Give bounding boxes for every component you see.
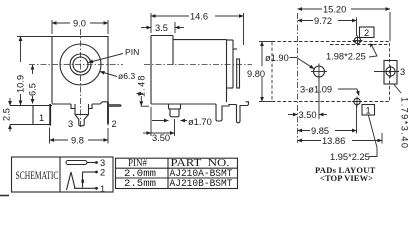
svg-text:3: 3 — [400, 67, 405, 77]
label ø1.90 — [265, 53, 314, 69]
svg-text:1.98*2.25: 1.98*2.25 — [326, 52, 366, 62]
front view left flange lines — [10, 106, 52, 125]
dimension 15.20 — [298, 5, 391, 42]
svg-text:PIN#: PIN# — [128, 157, 147, 169]
dimension 6.5 left — [28, 65, 38, 104]
table cell 2.0mm — [124, 168, 156, 180]
table cell AJ210B-BSMT — [170, 178, 233, 190]
front view center boss pin 3 — [71, 104, 92, 126]
schematic switch contact — [82, 171, 98, 188]
big pad ø1.90 — [311, 64, 327, 80]
svg-text:9.0: 9.0 — [73, 19, 86, 29]
side view ø1.70 boss — [169, 104, 181, 117]
PIN label — [125, 47, 139, 57]
dimension ø1.70 — [152, 117, 212, 127]
pad 2 number box — [360, 27, 375, 38]
svg-text:9.72: 9.72 — [314, 16, 332, 26]
front view right mounting lug — [109, 105, 121, 106]
schematic box — [12, 157, 114, 192]
svg-text:9.80: 9.80 — [247, 69, 265, 79]
ø6.3 label — [118, 71, 135, 81]
front view inner pin circle — [73, 57, 88, 72]
schematic contact 2 label — [100, 168, 105, 178]
svg-text:2: 2 — [100, 168, 105, 178]
svg-text:10.9: 10.9 — [16, 75, 26, 93]
label 1.98*2.25 — [326, 44, 377, 62]
dimension 9.85 — [298, 104, 357, 136]
svg-text:2.5mm: 2.5mm — [124, 178, 156, 190]
dimension 9.80 pads — [247, 42, 272, 102]
side view bottom edge — [151, 103, 216, 105]
side view body top — [173, 39, 227, 41]
schematic spring contact — [67, 172, 76, 190]
svg-text:1: 1 — [366, 106, 371, 116]
svg-text:ø1.70: ø1.70 — [188, 117, 212, 127]
svg-text:3.50: 3.50 — [299, 110, 317, 120]
schematic sleeve line to pin 1 — [74, 187, 98, 190]
label 1.95*2.25 with leader — [330, 116, 377, 163]
table header PART NO. — [171, 157, 230, 169]
pad 3 label — [400, 67, 405, 77]
svg-text:15.20: 15.20 — [323, 5, 346, 15]
schematic contact 1 label — [100, 184, 105, 194]
front view middle circle — [70, 54, 91, 75]
pin 1 label — [39, 113, 44, 123]
dimension 10.9 left — [15, 37, 52, 106]
front view pin 2 — [107, 102, 109, 126]
pads outline dashed rect — [272, 42, 390, 102]
schematic contact 3 label — [100, 158, 105, 168]
table header PIN# — [128, 157, 147, 169]
svg-text:9.85: 9.85 — [311, 126, 329, 136]
svg-text:2: 2 — [364, 28, 369, 38]
svg-text:ø1.90: ø1.90 — [265, 53, 289, 63]
PADs LAYOUT caption — [315, 165, 376, 175]
svg-text:6.5: 6.5 — [28, 83, 38, 96]
dimension 9.8 bottom — [50, 128, 109, 146]
svg-text:PART NO.: PART NO. — [171, 157, 230, 169]
dimension 13.86 — [298, 133, 383, 146]
svg-text:1.79*3.40: 1.79*3.40 — [400, 97, 410, 149]
front view outer circle ø6.3 — [60, 44, 101, 85]
front view bottom edge left — [52, 103, 71, 105]
front view center crosshair horizontal — [29, 64, 123, 66]
svg-text:2: 2 — [112, 119, 117, 129]
svg-text:<TOP VIEW>: <TOP VIEW> — [320, 173, 373, 183]
ø6.3 leader — [100, 72, 117, 77]
svg-text:9.8: 9.8 — [71, 136, 84, 146]
svg-text:1: 1 — [39, 113, 44, 123]
pin 2 label — [112, 119, 117, 129]
svg-text:ø6.3: ø6.3 — [118, 71, 135, 81]
front view center crosshair vertical — [80, 29, 82, 127]
svg-text:2.5: 2.5 — [2, 108, 12, 121]
dimension 9.0 top — [52, 18, 108, 34]
pad center horizontal line to pad 3 — [374, 71, 399, 73]
svg-text:3.50: 3.50 — [152, 133, 170, 143]
SCHEMATIC label — [16, 170, 59, 182]
side view front face — [150, 36, 152, 105]
parts table border — [116, 158, 238, 188]
pad 1 number box — [362, 105, 375, 116]
svg-text:14.6: 14.6 — [190, 12, 208, 22]
dimension 9.72 — [298, 16, 357, 36]
svg-text:SCHEMATIC: SCHEMATIC — [16, 170, 59, 182]
front view bottom edge right with shoulder — [92, 102, 108, 104]
PIN leader — [89, 54, 124, 63]
svg-text:13.86: 13.86 — [322, 136, 345, 146]
dimension 2.5 left — [2, 98, 12, 132]
pin 3 label — [68, 119, 73, 129]
svg-text:1.95*2.25: 1.95*2.25 — [330, 152, 370, 162]
side view rear pin — [237, 102, 249, 123]
pads outline inner dashed line top — [330, 44, 390, 46]
TOP VIEW caption — [320, 173, 373, 183]
schematic barrel symbol — [66, 161, 98, 165]
pad 2 hole circle — [353, 36, 363, 46]
dimension 3.50 side — [143, 107, 175, 143]
pad 3 hole circle — [386, 66, 395, 78]
pad 3 rectangle — [384, 61, 397, 85]
side view snout step vertical — [172, 36, 174, 66]
svg-text:PIN: PIN — [125, 47, 139, 57]
dimension 14.6 top — [151, 11, 244, 45]
dimension 1.48 side — [137, 74, 150, 106]
svg-text:3-ø1.09: 3-ø1.09 — [300, 85, 332, 95]
dimension 3.5 side — [141, 22, 184, 33]
side view snout top — [151, 35, 173, 37]
svg-text:3.5: 3.5 — [155, 23, 168, 33]
svg-text:AJ210B-BSMT: AJ210B-BSMT — [170, 178, 233, 190]
label 3-ø1.09 — [300, 85, 359, 96]
pad 1 hole circle — [352, 97, 362, 107]
front view body outline — [52, 37, 108, 104]
table cell 2.5mm — [124, 178, 156, 190]
svg-text:3: 3 — [68, 119, 73, 129]
side view centerline — [144, 64, 252, 66]
pads reference centerline vertical — [297, 13, 299, 143]
dimension 3.50 pads — [288, 78, 327, 120]
side view smt foot — [216, 104, 237, 121]
label 1.79*3.40 rotated — [394, 85, 410, 150]
svg-text:1: 1 — [100, 184, 105, 194]
side view back lug — [233, 49, 240, 88]
front view pin 1 tab — [49, 104, 51, 126]
stray scan mark bottom left — [0, 195, 9, 197]
table cell AJ210A-BSMT — [170, 168, 233, 180]
svg-text:3: 3 — [100, 158, 105, 168]
side view back plate — [227, 40, 234, 88]
side view back vertical — [226, 40, 228, 102]
